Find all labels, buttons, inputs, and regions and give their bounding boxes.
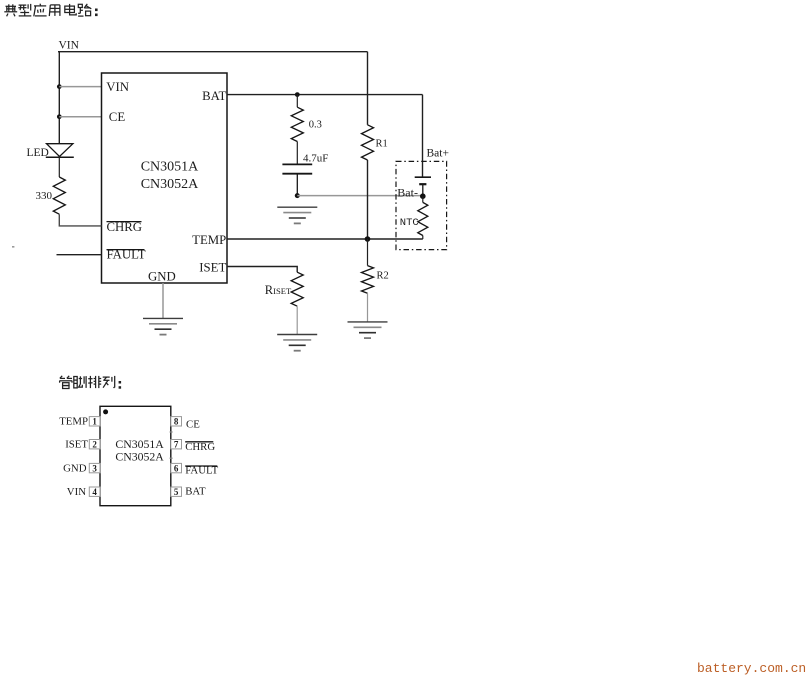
svg-text:CE: CE	[186, 418, 200, 430]
svg-text:BAT: BAT	[185, 485, 206, 497]
wire to VIN pin	[59, 86, 101, 88]
svg-text:8: 8	[174, 417, 179, 427]
resistor RISET	[291, 272, 303, 306]
title text 典型应用电路: (drawn strokes)	[4, 4, 91, 17]
thermistor NTC	[418, 202, 428, 235]
wire R330 to CHRG pin	[59, 214, 101, 226]
ground GND pin	[143, 318, 183, 334]
svg-text:R1: R1	[376, 138, 388, 149]
svg-text:4.7uF: 4.7uF	[303, 152, 328, 164]
wire to CE pin	[59, 116, 101, 118]
wire LED to R330	[58, 157, 60, 177]
stray dot artifact	[12, 246, 14, 248]
junction dot C1 gnd / Bat-	[295, 193, 300, 198]
resistor 0.3	[291, 107, 303, 141]
pin box 4	[89, 487, 100, 496]
svg-text:VIN: VIN	[59, 40, 80, 52]
resistor R2	[362, 266, 374, 294]
svg-text:3: 3	[92, 464, 97, 474]
svg-text:TEMP: TEMP	[192, 233, 226, 247]
LED D1	[46, 144, 74, 158]
junction dot Bat-	[420, 193, 426, 199]
wire RISET to ground	[296, 306, 298, 334]
svg-text:5: 5	[174, 487, 179, 497]
svg-text:CN3052A: CN3052A	[141, 177, 199, 192]
pin diagram IC body	[100, 406, 171, 505]
capacitor C1 4.7uF	[282, 164, 312, 195]
svg-text:CHRG: CHRG	[185, 441, 215, 453]
ground RISET	[277, 335, 317, 351]
svg-text:ISET: ISET	[199, 260, 226, 274]
wire R1 to TEMP node	[367, 160, 369, 239]
svg-text:BAT: BAT	[202, 89, 226, 103]
wire NTC to TEMP	[422, 236, 424, 240]
svg-text:CHRG: CHRG	[107, 220, 143, 234]
title text 管脚排列: (drawn strokes)	[59, 376, 114, 389]
pin box 6	[171, 463, 182, 472]
resistor R1	[362, 125, 374, 160]
wire ISET net	[227, 267, 297, 273]
svg-text:7: 7	[174, 440, 179, 450]
svg-text:2: 2	[92, 440, 97, 450]
title colon	[95, 9, 98, 17]
pin box 8	[171, 417, 182, 426]
battery pack dashed box	[396, 161, 447, 249]
junction dot TEMP node	[365, 236, 371, 242]
svg-text:R2: R2	[377, 271, 389, 282]
wire BAT to battery pack vertical	[422, 95, 424, 178]
junction dot CE pin	[57, 114, 62, 119]
pin box 3	[89, 463, 100, 472]
svg-text:NTC: NTC	[400, 217, 419, 229]
svg-text:CE: CE	[109, 110, 126, 124]
junction dot BAT/R0.3	[295, 92, 300, 97]
wire TEMP net	[227, 238, 423, 240]
svg-text:VIN: VIN	[67, 486, 86, 498]
wire R1 top vertical	[367, 52, 369, 125]
svg-text:1: 1	[92, 417, 97, 427]
resistor 330	[53, 177, 65, 214]
wire BAT net	[227, 94, 423, 96]
wire VIN left vertical	[58, 52, 60, 144]
wire VIN rail top	[58, 51, 368, 53]
junction dot VIN pin	[57, 84, 62, 89]
wire GND pin stub	[162, 283, 164, 318]
svg-text:GND: GND	[63, 462, 87, 474]
wire R2 to ground	[367, 293, 369, 321]
svg-text:RISET: RISET	[265, 283, 292, 297]
svg-text:330: 330	[36, 190, 53, 202]
wire R0.3 to C1	[296, 142, 298, 165]
svg-text:6: 6	[174, 464, 179, 474]
svg-text:ISET: ISET	[65, 438, 88, 450]
wire Bat- to NTC	[422, 196, 424, 202]
pin box 7	[171, 440, 182, 449]
svg-text:VIN: VIN	[106, 80, 129, 94]
wire FAULT stub	[57, 254, 102, 256]
svg-text:CN3051A: CN3051A	[141, 159, 199, 174]
pin box 5	[171, 487, 182, 496]
svg-text:0.3: 0.3	[309, 119, 322, 130]
svg-text:TEMP: TEMP	[59, 416, 88, 428]
svg-text:GND: GND	[148, 270, 176, 284]
pin box 1	[89, 417, 100, 426]
op IC U1 CN3051A/CN3052A body	[102, 73, 228, 283]
ground C1	[277, 207, 317, 223]
pin 1 marker dot	[103, 409, 108, 414]
pin box 2	[89, 440, 100, 449]
wire TEMP node to R2	[367, 239, 369, 266]
svg-text:LED: LED	[27, 147, 49, 159]
wire BAT dot to R0.3	[296, 95, 298, 108]
ground R2	[348, 322, 388, 338]
battery BT1 plates	[415, 177, 431, 195]
svg-text:battery.com.cn: battery.com.cn	[697, 661, 806, 676]
title2 colon	[119, 381, 122, 389]
pin body edge tick lower	[170, 457, 173, 459]
svg-text:4: 4	[92, 487, 97, 497]
wire Bat- net	[297, 195, 423, 197]
svg-text:Bat+: Bat+	[427, 148, 449, 160]
svg-text:CN3052A: CN3052A	[115, 449, 164, 463]
svg-text:Bat-: Bat-	[397, 186, 418, 200]
pin body edge tick upper	[170, 431, 173, 433]
